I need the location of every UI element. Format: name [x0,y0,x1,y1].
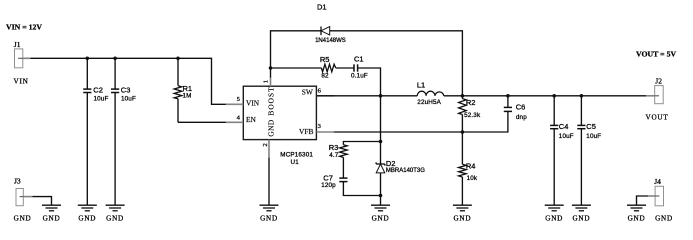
svg-text:C5: C5 [586,122,596,131]
ground C2 [78,205,97,222]
wire VFB net [334,111,508,132]
resistor R2 [459,96,481,132]
svg-text:GND: GND [372,214,390,222]
diode D1 1N4148WS [271,2,463,96]
svg-text:BOOST: BOOST [267,86,276,115]
connector J2 [646,76,669,121]
svg-text:GND: GND [453,214,471,222]
svg-text:3: 3 [318,123,321,130]
wire GND pin2 [268,158,270,206]
svg-text:22uH5A: 22uH5A [417,99,441,106]
ground C3 [106,205,125,222]
ground R4 [453,205,472,222]
svg-text:dnp: dnp [516,114,527,121]
resistor R4 [459,132,478,205]
ground C5 [572,205,591,222]
svg-text:R4: R4 [466,162,476,171]
resistor R5 [271,55,336,80]
svg-text:2: 2 [262,143,269,146]
resistor R1 [174,58,192,122]
node VIN-C3 [113,57,117,61]
pin 4 stub [226,121,243,123]
capacitor C2 [83,58,108,205]
svg-text:GND: GND [655,215,673,223]
svg-text:GND: GND [260,214,278,222]
svg-text:R3: R3 [329,143,339,152]
svg-text:GND: GND [14,214,32,222]
op-amp U1 MCP16301 [243,86,316,166]
svg-text:VFB: VFB [299,127,313,136]
svg-text:J2: J2 [655,76,662,85]
wire J4 to ground [637,196,649,205]
svg-text:VOUT: VOUT [646,114,669,122]
node SW junction [379,94,383,98]
svg-text:SW: SW [302,87,313,96]
node VIN-C2 [86,57,90,61]
node BOOST [269,66,273,70]
connector J4 [648,177,673,223]
diode D2 MBRA140T3G [376,159,425,196]
node R3 branch [379,140,383,144]
svg-text:4.7: 4.7 [329,152,339,159]
node D2-C7 [379,194,383,198]
svg-text:GND: GND [78,214,96,222]
svg-text:MCP16301: MCP16301 [280,151,313,158]
wire D2 to ground [380,196,382,206]
svg-text:C2: C2 [93,86,103,95]
svg-text:10uF: 10uF [559,133,574,140]
node C5 [580,94,584,98]
svg-text:1M: 1M [183,92,192,99]
capacitor C6 [504,96,527,121]
node C4 [552,94,556,98]
svg-text:GND: GND [267,119,276,136]
capacitor C7 [321,174,380,196]
capacitor C1 [336,55,381,96]
svg-text:0.1uF: 0.1uF [351,73,368,80]
svg-text:120p: 120p [321,182,336,189]
pin 6 stub [316,95,334,97]
inductor L1 [417,81,463,106]
node VOUT junction [461,94,465,98]
ground D2 [371,205,390,222]
connector J1 [14,40,31,85]
svg-text:C3: C3 [121,86,131,95]
svg-text:R5: R5 [320,55,330,64]
resistor R3 [329,142,381,179]
svg-text:GND: GND [43,214,61,222]
svg-text:MBRA140T3G: MBRA140T3G [386,168,425,174]
ground C4 [545,205,564,222]
capacitor C3 [111,58,136,205]
wire VOUT rail [462,95,646,97]
svg-text:82: 82 [321,72,329,79]
node VFB-R2R4 [461,130,465,134]
wire BOOST vertical [270,68,272,78]
svg-text:J1: J1 [14,40,21,49]
svg-text:U1: U1 [291,159,300,166]
pin 2 stub [268,140,270,158]
svg-text:GND: GND [572,214,590,222]
svg-text:10k: 10k [467,175,478,182]
pin 5 stub [226,103,243,105]
capacitor C4 [550,96,574,205]
svg-text:J4: J4 [654,177,661,186]
svg-text:R2: R2 [466,98,476,107]
svg-text:5: 5 [237,96,240,103]
node C6 [506,94,510,98]
svg-text:VIN = 12V: VIN = 12V [6,23,42,32]
wire J3 to ground [32,197,51,206]
svg-text:GND: GND [545,214,563,222]
svg-text:VIN: VIN [246,98,260,107]
connector J3 [14,177,33,223]
svg-text:EN: EN [246,115,257,124]
pin 3 stub [316,131,334,133]
svg-text:VOUT = 5V: VOUT = 5V [636,49,676,58]
svg-text:52.3k: 52.3k [464,112,481,119]
wire VIN rail [31,58,226,104]
ground J4 [627,205,646,222]
ground U1 [260,205,279,222]
svg-text:GND: GND [106,214,124,222]
svg-text:J3: J3 [14,177,21,186]
svg-text:C6: C6 [516,103,526,112]
wire SW to D2 [380,96,382,164]
svg-text:C4: C4 [559,122,569,131]
svg-text:L1: L1 [417,81,425,90]
ground J3 [42,205,61,222]
svg-text:1N4148WS: 1N4148WS [315,38,346,44]
svg-text:GND: GND [628,215,646,223]
wire R1 to EN [178,121,226,123]
svg-text:VIN: VIN [14,78,29,86]
svg-text:10uF: 10uF [121,95,136,102]
pin 1 stub [270,77,272,86]
capacitor C5 [577,96,601,205]
wire SW net [316,95,417,97]
svg-text:10uF: 10uF [94,95,109,102]
svg-text:C1: C1 [354,55,364,64]
svg-text:D1: D1 [317,2,327,11]
svg-text:10uF: 10uF [586,133,601,140]
svg-text:D2: D2 [386,159,396,168]
node VIN-R1 [176,57,180,61]
svg-text:1: 1 [263,80,270,83]
